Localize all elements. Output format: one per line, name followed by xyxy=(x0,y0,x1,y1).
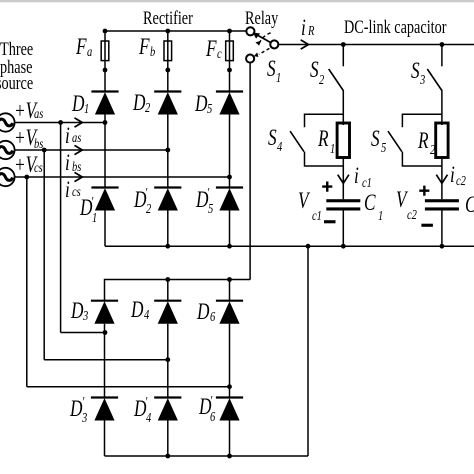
node: DC- / lower-bridge return xyxy=(306,244,311,249)
diode D6' (lower bridge) xyxy=(216,398,243,421)
AC source phase b xyxy=(0,141,15,159)
node: tap a / lower column 1 xyxy=(103,330,108,335)
relay contact circle (common, to DC+) xyxy=(270,40,278,48)
label: polarity - of C1 xyxy=(324,220,336,223)
label: diode D_2' xyxy=(134,188,146,211)
wire: column c to DC- rail xyxy=(229,211,231,247)
wire: phase c feed (V_cs) xyxy=(15,176,230,178)
label: fuse F_b xyxy=(139,35,150,58)
node: top rail / Fb junction xyxy=(165,29,170,34)
wire: DC+ drop to switch S2 xyxy=(342,45,344,67)
wire: bypass bracket top (around R1) xyxy=(305,114,344,127)
diode D2' (second row) xyxy=(154,188,181,211)
wire: phase column a (fuse Fa leg) xyxy=(104,31,106,92)
arrow: current i_bs xyxy=(75,145,83,154)
node: below fuse F_b xyxy=(165,68,170,73)
fuse F_b xyxy=(164,41,172,61)
node: DC- / D2' anode xyxy=(165,244,170,249)
arrow: current i_R xyxy=(301,40,309,49)
wire: column b between diodes xyxy=(167,115,169,188)
relay dashed throw arc xyxy=(259,33,270,43)
node: phase b input junction xyxy=(165,148,170,153)
diode D4 (lower bridge) xyxy=(154,301,181,324)
label: diode D_5 xyxy=(195,92,207,115)
arrow: current i_c2 xyxy=(436,175,447,184)
label: C_1 xyxy=(364,191,376,214)
wire: lower bridge bottom rail xyxy=(105,455,309,457)
wire: lower column 1 to bottom rail xyxy=(104,421,106,457)
label: diode D_5' xyxy=(196,188,208,211)
label: polarity + of C2 xyxy=(419,186,429,196)
node: DC- / D5' anode xyxy=(227,244,232,249)
node: top rail / Fa junction xyxy=(103,29,108,34)
wire: column a between diodes xyxy=(104,115,106,188)
label: switch S_5 xyxy=(371,127,380,150)
diode D6 (lower bridge) xyxy=(216,301,243,324)
label: +V_cs xyxy=(14,153,36,176)
arrow: current i_cs xyxy=(75,172,83,181)
switch S4 arm xyxy=(290,131,304,151)
wire: DC- rail xyxy=(105,245,474,247)
diode D5 (top row) xyxy=(216,92,243,115)
label: diode D_3 xyxy=(71,299,83,322)
label: i_cs xyxy=(65,178,70,201)
node: tap c / lower column 3 xyxy=(227,384,232,389)
wire: R1 to capacitor C1 xyxy=(342,158,344,200)
wire: phase a feed (V_as) xyxy=(15,122,106,124)
diode D1 (top row) xyxy=(91,92,118,115)
wire: lower bridge top rail with relay elbow xyxy=(105,280,251,301)
wire: tap phase a down xyxy=(60,123,62,333)
fuse F_c xyxy=(226,41,234,61)
label: +V_bs xyxy=(14,126,36,149)
label: fuse F_a xyxy=(76,35,87,58)
label: diode D_2 xyxy=(133,91,145,114)
arrow: current i_c1 xyxy=(338,175,349,184)
capacitor C2 xyxy=(425,199,459,210)
wire: lower column 1 mid xyxy=(104,324,106,398)
label: diode D_4 xyxy=(131,298,143,321)
node: bottom rail / col2 xyxy=(165,454,170,459)
label: V_c1 xyxy=(298,189,309,212)
label: +V_as xyxy=(14,99,36,122)
wire: tap phase b down xyxy=(43,150,45,360)
label: polarity - of C2 xyxy=(421,224,433,227)
wire: DC+ drop to switch S3 xyxy=(441,45,443,67)
wire: bypass bracket top (around R2) xyxy=(402,114,442,127)
label: switch S_4 xyxy=(268,126,277,149)
capacitor C1 xyxy=(326,199,360,210)
AC source phase c xyxy=(0,168,15,186)
diode D1' (second row) xyxy=(91,188,118,211)
top gray strip xyxy=(0,0,474,2)
label: diode D_6' xyxy=(199,395,211,418)
node: DC+ / S3 branch xyxy=(440,42,445,47)
diode D3 (lower bridge) xyxy=(91,301,118,324)
title: Relay xyxy=(245,9,278,28)
wire: lower top rail to D6 xyxy=(229,280,231,301)
title: DC-link capacitor xyxy=(344,18,446,37)
wire: switch S3 to resistor R2 xyxy=(441,91,443,125)
wire: phase column c (fuse Fc leg) xyxy=(229,31,231,92)
label: current i_R xyxy=(301,16,306,39)
label: diode D_3' xyxy=(70,397,82,420)
title: Rectifier xyxy=(143,9,193,28)
node: phase c input junction xyxy=(227,175,232,180)
label: polarity + of C1 xyxy=(322,182,332,192)
wire: R2 to capacitor C2 xyxy=(441,158,443,200)
wire: column c between diodes xyxy=(229,115,231,188)
node: phase c tap junction xyxy=(24,175,29,180)
AC source phase a xyxy=(0,113,15,131)
fuse F_a xyxy=(101,41,109,61)
wire: lower column 2 to bottom rail xyxy=(167,421,169,457)
node: DC- / C2 branch xyxy=(440,244,445,249)
switch S3 arm xyxy=(427,69,442,91)
label: C_2 xyxy=(465,193,474,216)
wire: bypass bracket bottom (around R1) xyxy=(305,152,344,166)
node: lower top rail / col2 xyxy=(165,277,170,282)
label: V_c2 xyxy=(396,188,407,211)
relay dashed throw to lower contact xyxy=(259,48,270,54)
wire: lower column 3 mid xyxy=(229,324,231,398)
wire: lower bridge return riser xyxy=(307,246,309,456)
wire: phase column b (fuse Fb leg) xyxy=(167,31,169,92)
label: Three phase source xyxy=(0,40,33,59)
relay contact circle (to rectifier) xyxy=(246,27,254,35)
switch S5 arm xyxy=(388,131,402,151)
node: tap b / lower column 2 xyxy=(165,357,170,362)
wire: C2 to DC- rail xyxy=(441,210,443,246)
label: i_bs xyxy=(65,151,70,174)
label: i_as xyxy=(65,124,70,147)
switch S2 arm xyxy=(329,69,344,91)
node: phase a tap junction xyxy=(58,120,63,125)
wire: rectifier top rail xyxy=(105,30,246,32)
node: phase b tap junction xyxy=(42,148,47,153)
node: below fuse F_a xyxy=(103,68,108,73)
wire: phase b feed (V_bs) xyxy=(15,149,168,151)
wire: relay common drop xyxy=(249,63,251,280)
label: diode D_6 xyxy=(197,300,209,323)
relay contact circle (lower) xyxy=(246,55,254,63)
node: DC- / C1 branch xyxy=(341,244,346,249)
label: diode D_4' xyxy=(134,397,146,420)
label: switch S_3 xyxy=(411,59,420,82)
diode D2 (top row) xyxy=(154,92,181,115)
diode D5' (second row) xyxy=(216,188,243,211)
relay arm S1 with arrow xyxy=(256,34,271,42)
wire: lower column 2 mid xyxy=(167,324,169,398)
label: diode D_1' xyxy=(80,196,92,219)
label: resistor R_2 xyxy=(418,129,429,152)
wire: lower top rail to D4 xyxy=(167,280,169,301)
node: lower top rail / col3 xyxy=(227,277,232,282)
node: below fuse F_c xyxy=(227,68,232,73)
node: bottom rail / col3 xyxy=(227,454,232,459)
wire: lower column 3 to bottom rail xyxy=(229,421,231,457)
wire: tap phase c down xyxy=(26,177,28,387)
label: fuse F_c xyxy=(206,37,217,60)
label: diode D_1 xyxy=(72,92,84,115)
wire: column b to DC- rail xyxy=(167,211,169,247)
label: switch S_2 xyxy=(310,58,319,81)
label: current i_c1 xyxy=(354,164,359,187)
node: DC+ / S2 branch xyxy=(341,42,346,47)
wire: DC+ rail from relay to right edge xyxy=(278,44,474,46)
diode D3' (lower bridge) xyxy=(91,398,118,421)
wire: column a to DC- rail xyxy=(104,211,106,247)
resistor R1 xyxy=(337,123,349,158)
arrow: current i_as xyxy=(75,118,83,127)
wire: C1 to DC- rail xyxy=(342,210,344,246)
diode D4' (lower bridge) xyxy=(154,398,181,421)
label: resistor R_1 xyxy=(318,127,329,150)
label: current i_c2 xyxy=(450,163,455,186)
label: switch S_1 xyxy=(267,57,276,80)
node: top rail / Fc junction xyxy=(227,29,232,34)
wire: bypass bracket bottom (around R2) xyxy=(402,152,442,166)
node: phase a input junction xyxy=(103,120,108,125)
resistor R2 xyxy=(436,123,448,158)
wire: switch S2 to resistor R1 xyxy=(342,91,344,125)
